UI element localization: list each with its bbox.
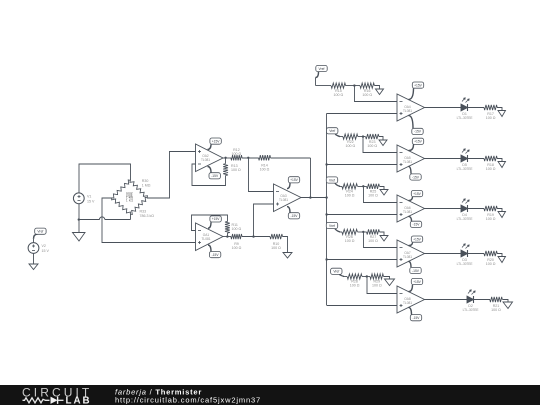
svg-text:+15V: +15V (413, 280, 422, 284)
svg-text:Vref: Vref (329, 129, 335, 133)
svg-text:100 Ω: 100 Ω (345, 239, 355, 243)
svg-text:+15V: +15V (212, 217, 221, 221)
svg-text:TL081: TL081 (201, 237, 210, 241)
svg-text:R33: R33 (140, 210, 147, 214)
svg-text:15 V: 15 V (42, 249, 50, 253)
svg-text:100 Ω: 100 Ω (334, 93, 344, 97)
svg-text:Vref: Vref (319, 67, 325, 71)
svg-text:100 Ω: 100 Ω (368, 239, 378, 243)
svg-text:TL081: TL081 (279, 198, 288, 202)
svg-text:100 Ω: 100 Ω (362, 93, 372, 97)
svg-text:Vref: Vref (329, 178, 335, 182)
svg-text:LTL-307EE: LTL-307EE (457, 167, 473, 171)
svg-text:100 Ω: 100 Ω (486, 217, 496, 221)
svg-text:Vref: Vref (329, 224, 335, 228)
svg-text:100 Ω: 100 Ω (231, 168, 241, 172)
svg-text:100 Ω: 100 Ω (491, 308, 501, 312)
svg-text:-15V: -15V (211, 174, 219, 178)
svg-text:100 Ω: 100 Ω (232, 227, 242, 231)
svg-text:LAB: LAB (66, 396, 92, 405)
svg-text:100 Ω: 100 Ω (232, 246, 242, 250)
svg-text:R30: R30 (142, 179, 149, 183)
svg-text:TL081: TL081 (403, 160, 412, 164)
svg-text:-15V: -15V (412, 175, 420, 179)
svg-text:Vref: Vref (333, 270, 339, 274)
svg-text:+15V: +15V (414, 83, 423, 87)
svg-text:-15V: -15V (414, 130, 422, 134)
svg-text:100 Ω: 100 Ω (368, 194, 378, 198)
svg-text:LTL-307EE: LTL-307EE (457, 217, 473, 221)
svg-text:+15V: +15V (290, 178, 299, 182)
svg-text:100 Ω: 100 Ω (232, 152, 242, 156)
svg-text:TL081: TL081 (403, 255, 412, 259)
svg-text:+15V: +15V (212, 139, 221, 143)
svg-text:-15V: -15V (413, 223, 421, 227)
svg-text:100 Ω: 100 Ω (346, 144, 356, 148)
svg-text:100 Ω: 100 Ω (486, 167, 496, 171)
svg-text:TL081: TL081 (403, 109, 412, 113)
svg-text:100 Ω: 100 Ω (260, 167, 270, 171)
svg-text:LTL-307EE: LTL-307EE (463, 308, 479, 312)
svg-text:100 Ω: 100 Ω (486, 262, 496, 266)
svg-text:http://circuitlab.com/caf5jxw2: http://circuitlab.com/caf5jxw2jmn37 (115, 395, 261, 404)
svg-text:100 Ω: 100 Ω (271, 246, 281, 250)
svg-text:100 Ω: 100 Ω (372, 284, 382, 288)
svg-text:-15V: -15V (291, 214, 299, 218)
svg-text:1 MΩ: 1 MΩ (142, 183, 151, 187)
svg-text:786.3 kΩ: 786.3 kΩ (140, 214, 155, 218)
svg-text:15 V: 15 V (87, 199, 95, 203)
svg-text:Vref: Vref (37, 230, 43, 234)
svg-text:LTL-307EE: LTL-307EE (457, 262, 473, 266)
svg-text:1 kΩ: 1 kΩ (126, 199, 134, 203)
svg-text:TL081: TL081 (201, 158, 210, 162)
svg-text:V1: V1 (87, 194, 91, 198)
svg-text:-15V: -15V (413, 316, 421, 320)
svg-text:100 Ω: 100 Ω (345, 194, 355, 198)
svg-text:+15V: +15V (413, 192, 422, 196)
svg-text:100 Ω: 100 Ω (486, 116, 496, 120)
svg-text:-15V: -15V (412, 269, 420, 273)
svg-text:LTL-307EE: LTL-307EE (457, 116, 473, 120)
svg-text:100 Ω: 100 Ω (350, 284, 360, 288)
svg-text:-15V: -15V (212, 253, 220, 257)
svg-text:TL081: TL081 (403, 210, 412, 214)
svg-text:V2: V2 (42, 244, 46, 248)
svg-text:R31: R31 (126, 193, 133, 197)
svg-text:TL081: TL081 (403, 301, 412, 305)
svg-text:+15V: +15V (413, 237, 422, 241)
svg-text:+15V: +15V (414, 140, 423, 144)
svg-text:100 Ω: 100 Ω (367, 144, 377, 148)
